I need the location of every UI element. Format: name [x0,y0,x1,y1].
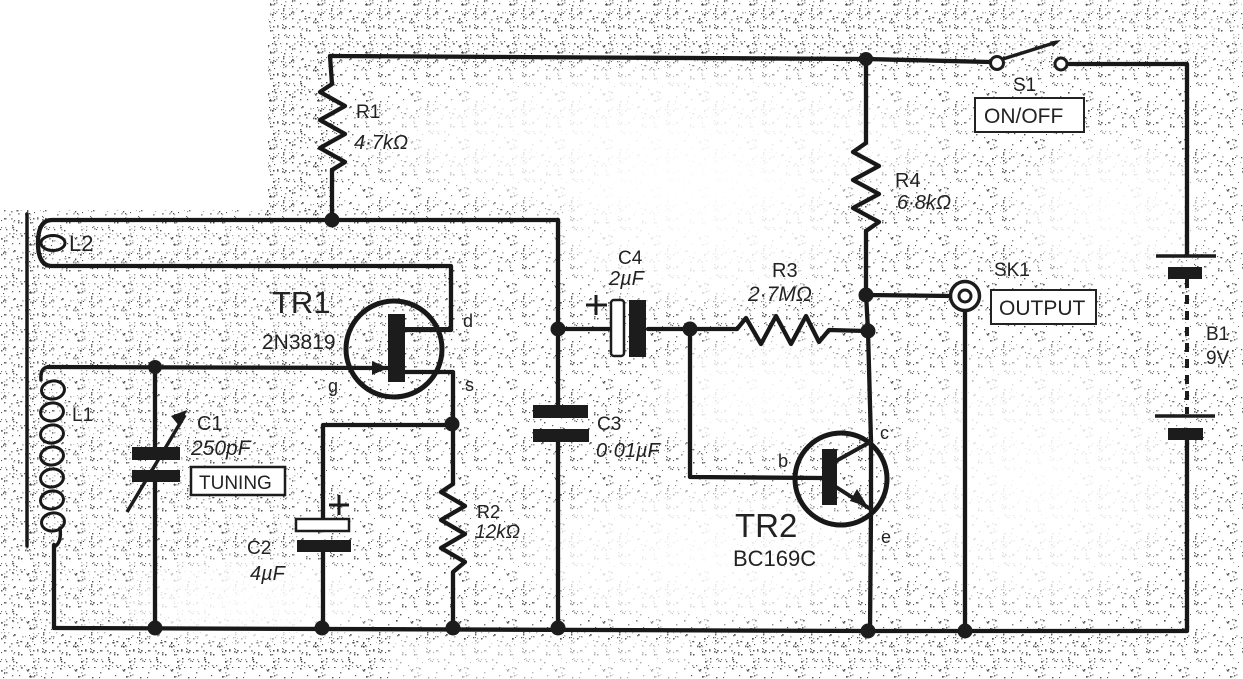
svg-text:12kΩ: 12kΩ [475,522,520,543]
svg-text:b: b [778,451,788,471]
svg-text:TR1: TR1 [272,285,331,320]
svg-text:C1: C1 [197,413,223,435]
svg-text:4·7kΩ: 4·7kΩ [354,132,408,154]
svg-text:2·7MΩ: 2·7MΩ [747,283,812,306]
svg-text:R4: R4 [895,170,921,192]
svg-text:C3: C3 [597,414,621,435]
svg-text:9V: 9V [1206,348,1230,369]
svg-text:C2: C2 [247,538,271,559]
svg-text:c: c [880,423,889,443]
svg-text:TR2: TR2 [735,507,797,544]
svg-text:0·01µF: 0·01µF [596,440,662,462]
svg-text:B1: B1 [1206,324,1229,345]
svg-text:250pF: 250pF [190,437,252,460]
svg-text:ON/OFF: ON/OFF [984,105,1063,128]
svg-text:R2: R2 [477,502,500,522]
svg-text:L2: L2 [69,231,93,256]
svg-text:e: e [881,527,891,547]
svg-text:L1: L1 [72,405,93,426]
svg-text:OUTPUT: OUTPUT [999,297,1086,320]
svg-text:6·8kΩ: 6·8kΩ [897,192,951,214]
svg-text:TUNING: TUNING [199,473,272,494]
svg-text:R3: R3 [772,260,798,282]
svg-text:g: g [328,376,338,396]
svg-text:BC169C: BC169C [733,546,816,571]
svg-text:R1: R1 [356,102,380,123]
svg-text:s: s [465,375,474,395]
svg-text:C4: C4 [618,248,643,269]
svg-text:S1: S1 [1013,75,1036,96]
svg-text:SK1: SK1 [994,260,1030,281]
svg-text:4µF: 4µF [250,563,287,585]
svg-text:2µF: 2µF [608,268,646,290]
svg-text:d: d [463,311,473,331]
svg-text:2N3819: 2N3819 [262,331,336,354]
